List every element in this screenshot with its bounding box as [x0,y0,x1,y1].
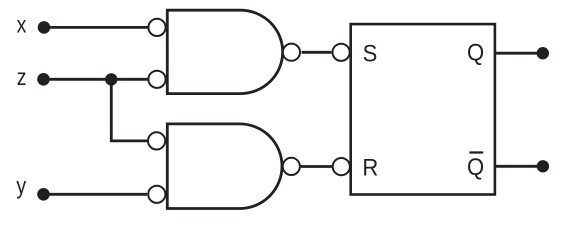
node z terminal dot [37,73,50,86]
wire z input to G1 bottom input bubble [44,78,149,81]
wire Q-bar output [495,165,537,168]
NAND gate G1 body [167,10,282,93]
node x terminal dot [38,21,51,34]
NAND gate G1 output bubble [283,44,300,61]
NAND gate G2 top input bubble [148,132,165,149]
wire y input to G2 bottom input bubble [44,193,148,196]
NAND gate G1 top input bubble [148,19,165,36]
NAND gate G1 bottom input bubble [148,71,165,88]
wire x input to G1 top input bubble [44,26,148,29]
wire Q output [495,52,537,55]
NAND gate G2 bottom input bubble [148,186,165,203]
svg-text:S: S [363,40,378,67]
overbar of Q-bar [469,151,483,153]
svg-text:x: x [17,12,27,38]
R input bubble of latch [333,158,350,175]
SR latch U1 box [351,24,495,194]
S input bubble of latch [333,44,350,61]
svg-text:Q: Q [467,38,484,65]
node Q-bar terminal dot [537,160,549,172]
node Q terminal dot [537,47,549,59]
svg-text:R: R [362,154,378,181]
NAND gate G2 output bubble [283,158,300,175]
svg-text:z: z [17,65,27,91]
wire branch from z junction down to G2 top input bubble [111,79,147,140]
node y terminal dot [37,188,50,201]
svg-text:y: y [16,173,26,199]
wire G2 output to R input bubble [301,165,333,168]
NAND gate G2 body [167,124,282,209]
junction on z wire [105,73,117,85]
svg-text:Q: Q [467,153,484,180]
wire G1 output to S input bubble [302,51,332,54]
